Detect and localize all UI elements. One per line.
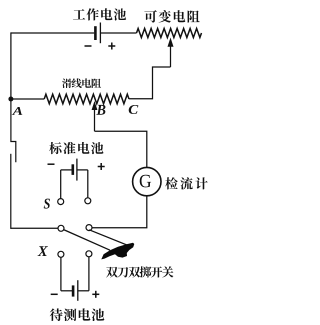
wire bottom-left corner to DPDT left pole <box>11 227 58 229</box>
label 可变电阻 (variable resistor) <box>144 10 199 22</box>
node A junction dot <box>8 97 13 102</box>
resistor R1 可变电阻 (variable resistor) <box>137 29 202 38</box>
label X <box>38 246 48 256</box>
label C <box>129 105 139 114</box>
wire top-left horizontal (battery left lead) <box>11 32 94 34</box>
battery E1 工作电池 (working battery) <box>95 23 100 44</box>
label A <box>12 107 23 115</box>
wire from R1 wiper down to node C <box>129 67 171 99</box>
DPDT middle pole right <box>86 225 92 231</box>
DPDT blade 2 <box>89 230 129 246</box>
wire S contacts up to standard battery <box>61 170 88 199</box>
DPDT X-side contact left <box>58 251 64 257</box>
wire left vertical (top-left corner down to node A) <box>10 32 12 99</box>
switch S0 in left wire (open break) <box>11 101 16 229</box>
label - (E2 negative) <box>48 163 55 165</box>
wire from B wiper to galvanometer <box>95 131 147 167</box>
label 标准电池 (standard cell) <box>49 142 103 154</box>
wire X contacts down to unknown battery <box>61 257 89 291</box>
wiper arrow at node B <box>92 102 97 131</box>
DPDT blade 1 <box>64 230 110 251</box>
label 双刀双掷开关 (DPDT switch) <box>106 266 173 277</box>
battery E2 标准电池 (standard cell) <box>61 169 73 171</box>
label 检流计 (galvanometer) <box>165 177 207 189</box>
label 工作电池 (working battery) <box>73 8 126 20</box>
label B <box>96 105 105 115</box>
label - (E3 negative) <box>51 293 58 295</box>
wire battery right lead <box>100 32 136 34</box>
battery E3 待测电池 (battery under test) <box>61 290 73 292</box>
wire galvanometer bottom lead to DPDT right pole <box>92 196 147 228</box>
wire node A to slide-wire start <box>11 98 44 100</box>
DPDT X-side contact right <box>86 251 92 257</box>
galvanometer G 检流计 <box>133 167 161 195</box>
label 滑线电阻 (slide-wire resistor) <box>62 78 101 88</box>
label 待测电池 (battery under test) <box>50 308 105 321</box>
label - (battery E1 negative) <box>85 45 92 47</box>
DPDT switch S-side contact left <box>58 199 64 205</box>
label + (E3 positive) <box>92 291 99 298</box>
DPDT handle (black knob) <box>101 243 134 260</box>
DPDT switch S-side contact right <box>85 198 91 204</box>
DPDT middle pole left <box>58 225 64 231</box>
label S <box>44 199 50 209</box>
resistor R2 滑线电阻 (slide-wire resistor) A-B-C <box>44 94 129 104</box>
wiper arrow of R1 <box>168 39 173 68</box>
label + (battery E1 positive) <box>108 43 115 50</box>
label + (E2 positive) <box>98 163 105 170</box>
